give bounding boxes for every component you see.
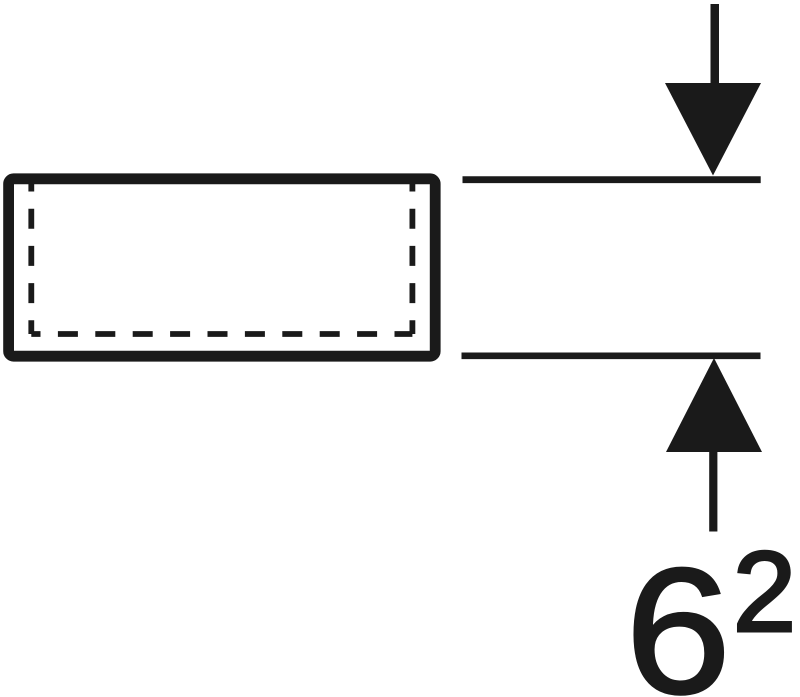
svg-text:6: 6 bbox=[625, 532, 731, 697]
svg-text:2: 2 bbox=[733, 529, 796, 656]
